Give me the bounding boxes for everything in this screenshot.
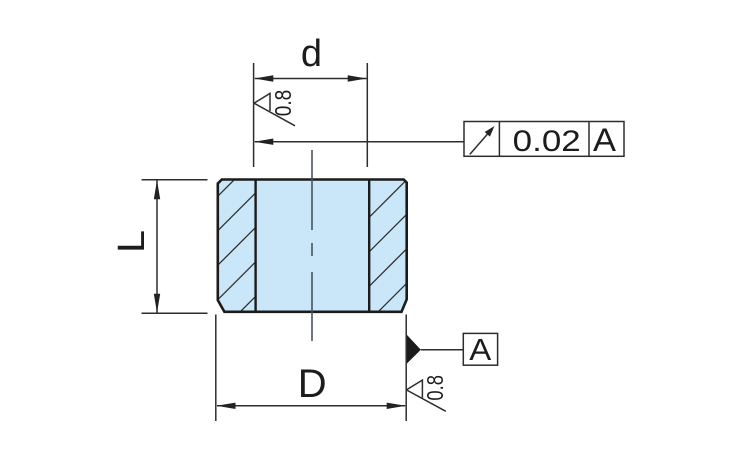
D extension line left: [215, 315, 217, 422]
svg-text:0.8: 0.8: [270, 90, 296, 117]
feature control frame: [464, 122, 624, 157]
svg-text:A: A: [593, 122, 617, 158]
svg-text:d: d: [301, 33, 322, 75]
body outline: [218, 180, 407, 312]
D extension line right: [405, 315, 407, 422]
dimension line L with arrows: [156, 180, 158, 312]
svg-text:0.8: 0.8: [422, 375, 448, 401]
datum leader: [421, 349, 464, 351]
centerline (dash-dot): [311, 150, 313, 341]
bore wall line left: [254, 180, 256, 312]
svg-text:A: A: [469, 332, 491, 367]
datum feature triangle (filled): [407, 335, 421, 364]
d extension line left: [253, 63, 255, 167]
bore wall line right: [368, 180, 370, 312]
d extension line right: [366, 63, 368, 167]
circular runout symbol: [470, 126, 495, 154]
L extension line top: [142, 179, 208, 181]
leader line from runout frame to d extension: [255, 141, 464, 143]
svg-text:L: L: [111, 230, 153, 253]
surface finish symbol bottom (0.8): [406, 380, 445, 411]
bushing body cross-section (light blue fill, chamfered corners): [218, 180, 407, 312]
hatching right wall: [306, 131, 456, 385]
hatching left wall: [154, 110, 304, 398]
dimension line D with arrows: [217, 405, 405, 407]
svg-text:D: D: [298, 362, 327, 406]
dimension line d with arrows: [255, 78, 367, 80]
svg-text:0.02: 0.02: [513, 125, 581, 158]
L extension line bottom: [142, 312, 208, 314]
datum box A: [463, 333, 497, 365]
surface finish symbol top (0.8): [254, 93, 295, 125]
